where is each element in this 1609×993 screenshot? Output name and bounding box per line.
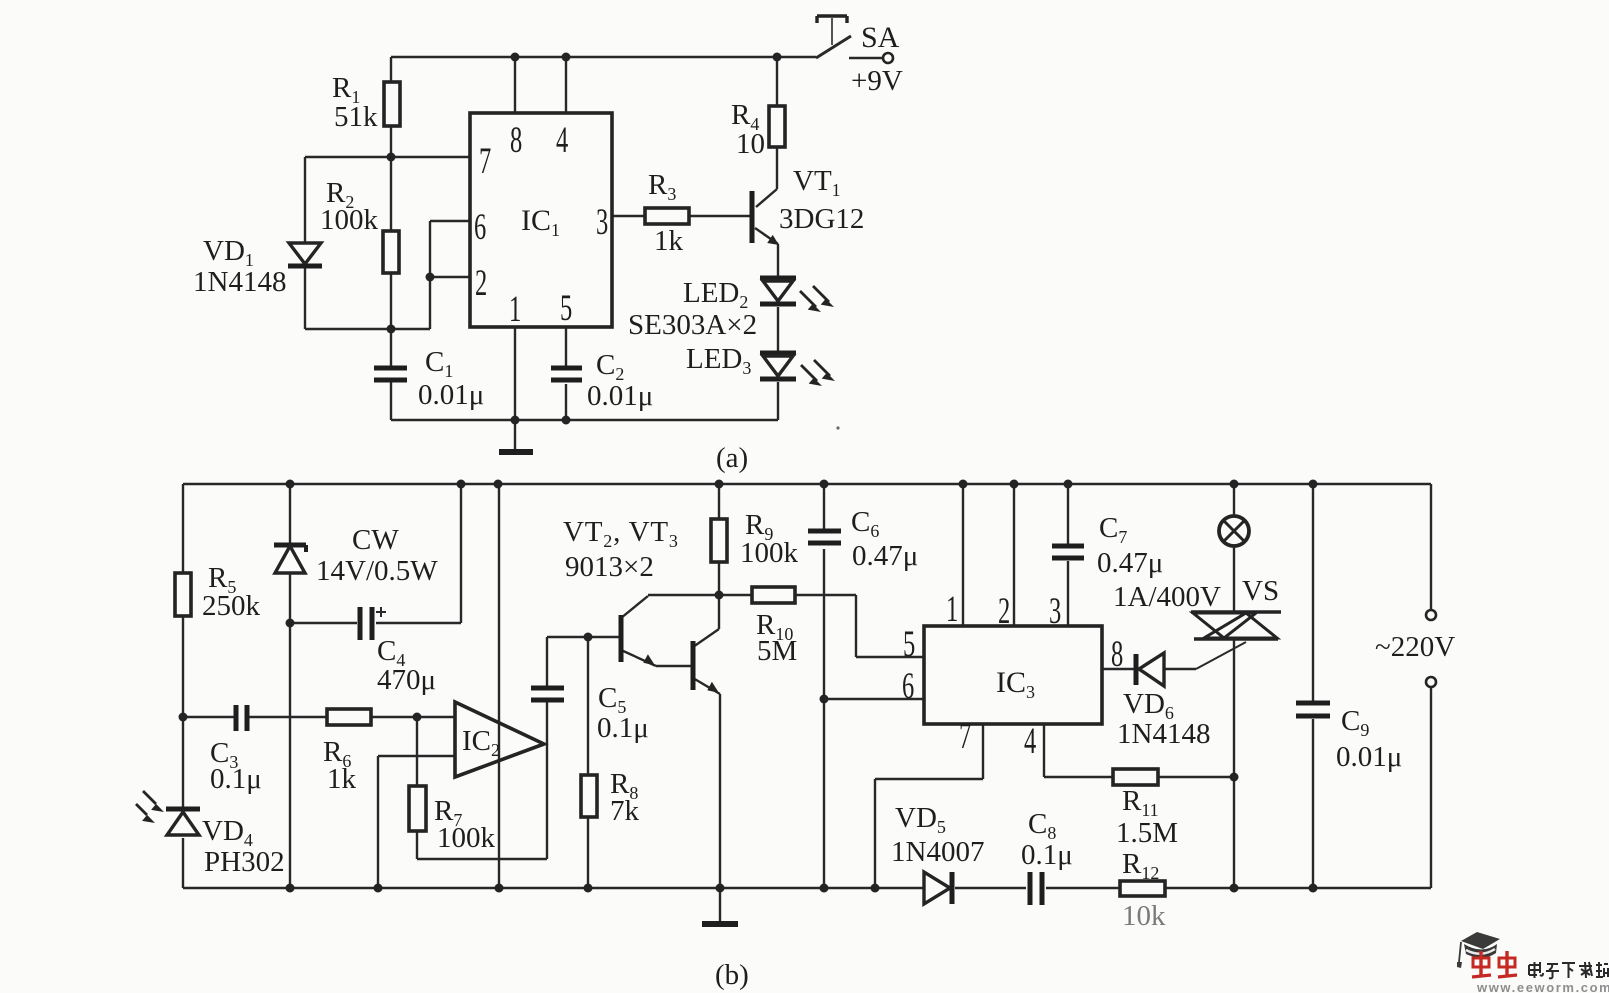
svg-text:(a): (a) (716, 442, 748, 474)
svg-text:+9V: +9V (851, 65, 903, 97)
svg-text:(b): (b) (715, 959, 749, 991)
svg-text:5M: 5M (757, 635, 797, 667)
svg-text:0.1μ: 0.1μ (1021, 839, 1073, 871)
svg-text:7: 7 (959, 715, 971, 756)
svg-text:10k: 10k (1122, 900, 1166, 932)
svg-text:1: 1 (946, 588, 958, 629)
svg-text:5: 5 (903, 623, 915, 664)
svg-text:1: 1 (509, 288, 521, 329)
svg-text:CW: CW (352, 524, 399, 556)
svg-text:0.47μ: 0.47μ (852, 540, 918, 572)
svg-text:100k: 100k (437, 822, 496, 854)
svg-text:8: 8 (510, 119, 522, 160)
svg-text:4: 4 (1024, 720, 1037, 761)
svg-text:1N4007: 1N4007 (891, 836, 984, 868)
svg-text:0.01μ: 0.01μ (418, 379, 484, 411)
svg-text:6: 6 (474, 206, 486, 247)
svg-text:4: 4 (556, 119, 569, 160)
svg-text:www.eeworm.com: www.eeworm.com (1476, 980, 1609, 993)
svg-text:7k: 7k (610, 795, 640, 827)
svg-text:0.1μ: 0.1μ (210, 763, 262, 795)
svg-text:0.01μ: 0.01μ (1336, 741, 1402, 773)
svg-text:100k: 100k (320, 204, 379, 236)
svg-text:VS: VS (1242, 575, 1279, 607)
svg-text:14V/0.5W: 14V/0.5W (316, 555, 438, 587)
svg-text:3: 3 (596, 201, 608, 242)
svg-text:3DG12: 3DG12 (779, 203, 864, 235)
svg-text:SE303A×2: SE303A×2 (628, 309, 757, 341)
svg-text:1N4148: 1N4148 (193, 266, 286, 298)
svg-text:10: 10 (736, 128, 765, 160)
svg-text:0.01μ: 0.01μ (587, 380, 653, 412)
svg-text:51k: 51k (334, 101, 378, 133)
svg-text:2: 2 (998, 590, 1010, 631)
svg-text:5: 5 (560, 287, 572, 328)
svg-text:LED2: LED2 (683, 277, 748, 312)
svg-text:PH302: PH302 (204, 846, 285, 878)
svg-text:LED3: LED3 (686, 343, 751, 378)
svg-text:VT2, VT3: VT2, VT3 (563, 516, 679, 551)
svg-text:8: 8 (1111, 633, 1123, 674)
svg-text:2: 2 (475, 262, 487, 303)
svg-text:1N4148: 1N4148 (1117, 718, 1210, 750)
svg-text:9013×2: 9013×2 (565, 551, 654, 583)
svg-text:3: 3 (1049, 590, 1061, 631)
svg-text:100k: 100k (740, 537, 799, 569)
svg-text:1k: 1k (327, 763, 357, 795)
svg-text:1k: 1k (654, 225, 684, 257)
svg-text:0.47μ: 0.47μ (1097, 547, 1163, 579)
svg-text:250k: 250k (202, 590, 261, 622)
svg-text:7: 7 (479, 140, 491, 181)
svg-text:0.1μ: 0.1μ (597, 712, 649, 744)
svg-text:1.5M: 1.5M (1116, 817, 1178, 849)
svg-text:SA: SA (861, 21, 900, 54)
svg-text:470μ: 470μ (377, 664, 436, 696)
svg-text:6: 6 (902, 665, 914, 706)
svg-text:~220V: ~220V (1375, 631, 1455, 663)
svg-text:1A/400V: 1A/400V (1113, 581, 1221, 613)
